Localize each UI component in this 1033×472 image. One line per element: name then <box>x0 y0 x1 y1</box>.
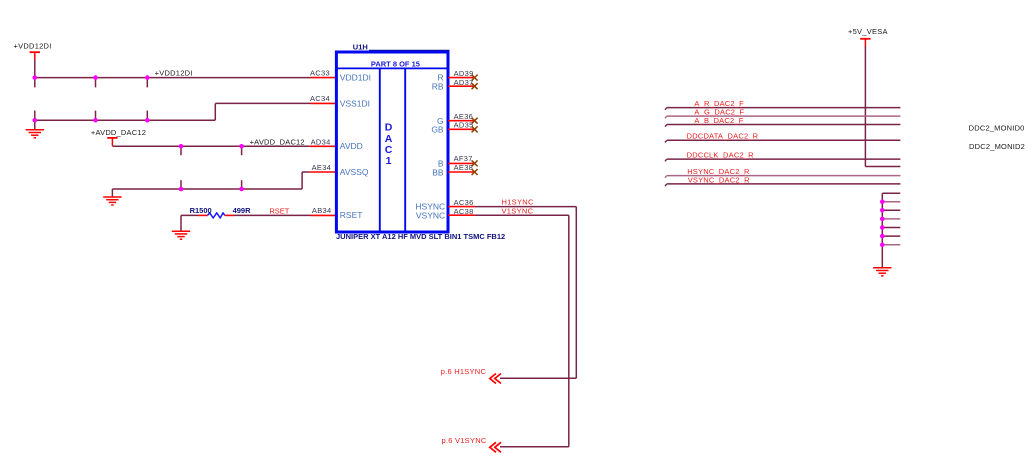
wire ladder vertical <box>881 193 883 267</box>
svg-text:RSET: RSET <box>340 210 363 220</box>
wire +5V_VESA branch <box>865 166 900 168</box>
svg-text:DDCDATA_DAC2_R: DDCDATA_DAC2_R <box>687 132 759 141</box>
svg-text:+5V_VESA: +5V_VESA <box>848 27 888 36</box>
pin AE34 lead <box>310 171 337 173</box>
wire ladder top branch <box>882 192 900 194</box>
power symbol +5V_VESA <box>860 39 870 47</box>
junction dot H <box>179 144 184 149</box>
svg-text:DDC2_MONID0: DDC2_MONID0 <box>969 124 1025 133</box>
bus entry tick DDCDATA_DAC2_R <box>665 140 667 142</box>
pin AD39 lead <box>448 77 475 79</box>
no-connect X on AD37 <box>472 83 478 89</box>
wire V1SYNC vertical <box>568 215 570 447</box>
pin AC33 lead <box>311 77 337 79</box>
wire drop to ground G1 <box>34 120 36 129</box>
off-page arrow V1SYNC <box>490 442 496 452</box>
no-connect X on AE38 <box>472 169 478 175</box>
resistor R1500 lead left <box>198 214 207 216</box>
svg-text:+AVDD_DAC12: +AVDD_DAC12 <box>250 137 305 146</box>
junction dot ladder 2 <box>880 208 885 213</box>
wire stub above junction D <box>34 111 36 121</box>
junction dot D <box>33 118 38 123</box>
svg-text:AC38: AC38 <box>454 207 474 216</box>
U1H divider 1 <box>379 68 381 231</box>
svg-text:499R: 499R <box>233 206 252 215</box>
ground G4 <box>873 268 891 276</box>
junction dot A <box>33 75 38 80</box>
wire ladder stub 2 <box>882 209 900 211</box>
svg-text:R1500: R1500 <box>190 206 212 215</box>
wire V1SYNC horizontal <box>475 214 569 216</box>
wire +VDD12DI horizontal rail <box>35 77 311 79</box>
label DAC1 vertical <box>385 122 393 167</box>
wire RSET left segment <box>181 214 198 216</box>
svg-text:AE34: AE34 <box>312 163 332 172</box>
wire net DDCCLK_DAC2_R <box>667 158 901 160</box>
svg-text:p.6 V1SYNC: p.6 V1SYNC <box>442 436 487 445</box>
junction dot ladder 5 <box>880 234 885 239</box>
junction dot F <box>145 118 150 123</box>
wire ladder stub 1 <box>882 201 900 203</box>
svg-text:AD37: AD37 <box>454 78 474 87</box>
no-connect X on AF37 <box>472 160 478 166</box>
svg-text:AVDD: AVDD <box>340 141 363 151</box>
svg-text:AD34: AD34 <box>311 137 331 146</box>
wire stub below junction B <box>95 78 97 88</box>
wire ladder stub 6 <box>882 244 900 246</box>
wire V1SYNC bottom <box>500 446 569 448</box>
svg-text:U1H: U1H <box>353 42 368 51</box>
wire RSET right segment <box>234 214 311 216</box>
pin AE38 lead <box>448 171 475 173</box>
junction dot J <box>179 187 184 192</box>
pin AC38 lead <box>448 214 475 216</box>
svg-text:RSET: RSET <box>269 207 289 216</box>
wire H1SYNC horizontal <box>475 206 577 208</box>
off-page arrow H1SYNC <box>490 374 496 384</box>
svg-text:BB: BB <box>432 168 444 178</box>
junction dot C <box>145 75 150 80</box>
svg-text:AD35: AD35 <box>454 120 474 129</box>
pin AD35 lead <box>448 128 475 130</box>
no-connect X on AE36 <box>472 118 478 124</box>
wire ladder stub 3 <box>882 218 900 220</box>
ground G3 <box>172 231 190 239</box>
svg-text:VSYNC: VSYNC <box>416 210 445 220</box>
wire stub above junction J <box>180 180 182 189</box>
junction dot K <box>239 187 244 192</box>
wire AVDD horizontal rail <box>112 145 309 147</box>
junction dot ladder 1 <box>880 200 885 205</box>
svg-text:VSYNC_DAC2_R: VSYNC_DAC2_R <box>688 175 750 184</box>
wire ground drop RSET <box>180 215 182 231</box>
svg-text:A: A <box>385 133 393 145</box>
wire H1SYNC vertical <box>575 207 577 379</box>
wire VSS riser <box>214 103 216 120</box>
no-connect X on AD35 <box>472 126 478 132</box>
bus entry tick VSYNC_DAC2_R <box>665 184 667 186</box>
junction dot E <box>93 118 98 123</box>
wire ladder stub 5 <box>882 235 900 237</box>
svg-text:AC34: AC34 <box>310 94 330 103</box>
wire stub below junction C <box>146 78 148 88</box>
svg-text:A_B_DAC2_F: A_B_DAC2_F <box>694 116 743 125</box>
wire +VDD12DI vertical drop <box>34 60 36 78</box>
wire net VSYNC_DAC2_R <box>667 183 901 185</box>
bus entry tick A_B_DAC2_F <box>665 125 667 127</box>
svg-text:1: 1 <box>386 155 392 167</box>
no-connect X on AD39 <box>472 75 478 81</box>
pin AC36 lead <box>448 206 475 208</box>
wire ladder stub 4 <box>882 227 900 229</box>
wire stub below junction I <box>241 146 243 155</box>
svg-text:AE38: AE38 <box>454 163 474 172</box>
pin AE36 lead <box>448 120 475 122</box>
bus entry tick HSYNC_DAC2_R <box>665 176 667 178</box>
ground G1 <box>26 130 44 138</box>
wire stub below junction H <box>180 146 182 155</box>
U1H header separator <box>336 67 448 69</box>
svg-text:DDCCLK_DAC2_R: DDCCLK_DAC2_R <box>687 151 755 160</box>
junction dot B <box>93 75 98 80</box>
svg-text:H1SYNC: H1SYNC <box>502 197 535 206</box>
junction dot ladder 6 <box>880 243 885 248</box>
wire drop to ground G2 <box>111 189 113 197</box>
pin AC34 lead <box>311 102 337 104</box>
wire net A_B_DAC2_F <box>667 124 901 126</box>
resistor R1500 body <box>208 213 225 218</box>
svg-text:VDD1DI: VDD1DI <box>340 72 371 82</box>
wire VSS to pin AC34 <box>215 102 310 104</box>
svg-text:AC36: AC36 <box>454 198 474 207</box>
power symbol +AVDD_DAC12 <box>107 138 117 146</box>
wire net HSYNC_DAC2_R <box>667 175 901 177</box>
wire net A_G_DAC2_F <box>667 115 901 117</box>
junction dot ladder 4 <box>880 225 885 230</box>
wire net A_R_DAC2_F <box>667 107 901 109</box>
U1H divider 2 <box>404 68 406 231</box>
svg-text:p.6 H1SYNC: p.6 H1SYNC <box>441 367 487 376</box>
wire +5V_VESA vertical <box>864 46 866 166</box>
svg-text:+AVDD_DAC12: +AVDD_DAC12 <box>91 128 146 137</box>
wire AVSSQ horizontal rail <box>112 188 302 190</box>
wire AVSSQ riser <box>301 172 303 189</box>
bus entry tick DDCCLK_DAC2_R <box>665 159 667 161</box>
ground G2 <box>103 197 121 205</box>
svg-text:JUNIPER XT A12 HF MVD SLT BIN1: JUNIPER XT A12 HF MVD SLT BIN1 TSMC FB12 <box>336 232 505 241</box>
wire stub above junction F <box>146 111 148 121</box>
U1H underline <box>369 49 450 51</box>
junction dot ladder 3 <box>880 217 885 222</box>
svg-text:+VDD12DI: +VDD12DI <box>155 68 193 77</box>
power symbol +VDD12DI <box>30 52 40 60</box>
svg-text:V1SYNC: V1SYNC <box>502 206 534 215</box>
wire VSS horizontal rail <box>35 119 216 121</box>
wire H1SYNC bottom <box>500 377 576 379</box>
svg-text:+VDD12DI: +VDD12DI <box>14 42 52 51</box>
bus entry tick A_R_DAC2_F <box>665 108 667 110</box>
svg-text:DDC2_MONID2: DDC2_MONID2 <box>969 142 1025 151</box>
svg-text:AVSSQ: AVSSQ <box>340 167 369 177</box>
pin AD37 lead <box>448 85 475 87</box>
wire AVSSQ to pin AE34 <box>302 171 310 173</box>
junction dot I <box>239 144 244 149</box>
op-amp U1H body outline <box>336 52 448 232</box>
wire stub above junction E <box>95 111 97 121</box>
svg-text:AC33: AC33 <box>310 69 330 78</box>
svg-text:GB: GB <box>431 124 444 134</box>
pin AF37 lead <box>448 162 475 164</box>
wire stub below junction A <box>34 78 36 88</box>
svg-text:AB34: AB34 <box>312 206 332 215</box>
svg-text:VSS1DI: VSS1DI <box>340 98 370 108</box>
wire net DDCDATA_DAC2_R <box>667 139 901 141</box>
svg-text:PART 8 OF 15: PART 8 OF 15 <box>371 60 420 69</box>
pin AB34 lead <box>311 214 337 216</box>
bus entry tick A_G_DAC2_F <box>665 116 667 118</box>
svg-text:RB: RB <box>432 81 444 91</box>
resistor R1500 lead right <box>225 214 234 216</box>
pin AD34 lead <box>310 145 337 147</box>
svg-text:AF37: AF37 <box>454 154 473 163</box>
wire stub above junction K <box>241 180 243 189</box>
